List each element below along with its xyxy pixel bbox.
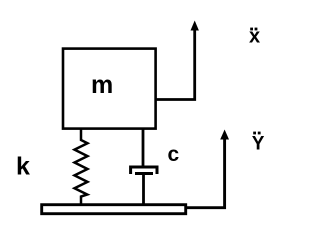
wire from mass to x-arrow (156, 29, 195, 100)
label Y-doubledot (252, 132, 265, 155)
svg-text:c: c (168, 143, 180, 166)
label x-doubledot (249, 26, 260, 48)
wire from base to y-arrow (187, 138, 225, 208)
damper piston plate (135, 172, 153, 175)
svg-text:k: k (16, 153, 30, 181)
mass m (box) (63, 49, 156, 129)
damper bottom rod (142, 174, 145, 205)
arrowhead y (220, 130, 229, 140)
svg-text:Y: Y (252, 134, 265, 155)
arrowhead x (191, 21, 199, 31)
spring k (75, 130, 88, 205)
damper cylinder (cap opening down) (131, 167, 157, 174)
svg-text:m: m (91, 71, 113, 99)
damper c : top rod (142, 130, 145, 168)
base bar (ground) (42, 205, 186, 214)
